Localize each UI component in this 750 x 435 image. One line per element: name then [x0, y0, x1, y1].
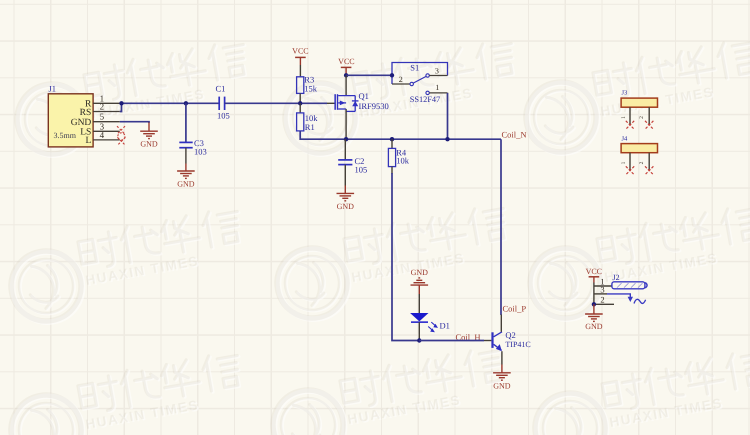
svg-text:GND: GND: [585, 322, 603, 331]
svg-text:RS: RS: [80, 108, 92, 118]
node R4 junction dot: [390, 137, 394, 141]
svg-text:2: 2: [100, 102, 105, 112]
J1 pin 1 (R): [93, 93, 120, 103]
J2 pin 3 sleeve contact: [594, 285, 633, 302]
capacitor C2: [338, 156, 367, 174]
no-ERC marker on J4 pin 1: [626, 166, 634, 174]
capacitor C1: [216, 83, 230, 120]
svg-text:105: 105: [217, 111, 230, 121]
svg-text:5: 5: [100, 112, 105, 122]
svg-text:S1: S1: [410, 62, 419, 72]
power VCC (Q1): [338, 57, 354, 75]
wire R4 bottom to Coil_H corner: [391, 167, 393, 174]
J1 pin 3 (LS): [93, 121, 120, 131]
wire C3 to ground: [185, 148, 187, 164]
svg-text:GND: GND: [177, 179, 195, 188]
svg-text:Coil_P: Coil_P: [503, 303, 527, 313]
svg-text:10k: 10k: [396, 155, 410, 165]
node S1 left junction dot: [390, 73, 394, 77]
J1 pin 5 (GND): [93, 112, 120, 122]
svg-text:3: 3: [600, 285, 604, 295]
connector J1: [48, 84, 93, 147]
S1 lever: [413, 76, 426, 83]
wire node B to R1: [299, 103, 301, 113]
svg-text:103: 103: [194, 147, 207, 157]
resistor R1: [297, 113, 319, 132]
wire C2 top pin: [344, 139, 346, 160]
svg-text:J2: J2: [613, 273, 620, 282]
svg-text:J4: J4: [622, 135, 629, 142]
no-ERC marker on J1 pin 4: [117, 137, 125, 145]
wire J1.2 RS riser to node A: [120, 103, 122, 111]
wire VCC node to S1: [346, 74, 392, 76]
wire Q2 collector pin: [500, 315, 502, 332]
J2 pin 1: [594, 276, 612, 304]
svg-text:J3: J3: [622, 90, 628, 97]
ground GND (C3): [177, 164, 195, 189]
J1 pin 2 (RS): [93, 102, 120, 112]
LED D1: [410, 313, 450, 332]
wire top bus: C1 to gate node: [225, 102, 327, 104]
no-ERC marker on J4 pin 2: [645, 166, 653, 174]
node C3 junction dot: [184, 101, 188, 105]
no-ERC dashed circle: [118, 133, 125, 140]
node B junction dot: [298, 101, 302, 105]
J4 pin 2: [639, 153, 649, 170]
wire R1 to mid bus: [300, 131, 345, 139]
wire J1 GND net to ground: [120, 122, 149, 123]
transistor Q1 IRF9530: [334, 91, 388, 111]
svg-text:GND: GND: [71, 118, 92, 128]
svg-text:105: 105: [355, 164, 368, 174]
svg-text:2: 2: [639, 116, 645, 119]
svg-text:TIP41C: TIP41C: [505, 340, 530, 349]
svg-text:GND: GND: [140, 140, 158, 149]
switch S1 box: [392, 62, 448, 104]
J2 plug barrel: [612, 282, 647, 289]
node Q1 drain / C2 junction dot: [344, 137, 348, 141]
capacitor C3: [179, 138, 206, 157]
power VCC (J2): [586, 267, 602, 282]
wire D1 cathode to Coil_H: [418, 322, 420, 340]
svg-text:Q1: Q1: [359, 91, 369, 101]
S1 pin 1: [426, 83, 448, 95]
svg-text:VCC: VCC: [338, 57, 354, 66]
svg-text:3: 3: [435, 67, 439, 76]
svg-text:1: 1: [621, 161, 627, 164]
node S1 pin1 junction dot: [445, 137, 449, 141]
svg-text:15k: 15k: [304, 83, 318, 93]
S1 pin 2: [392, 75, 413, 86]
wire C3 branch: [185, 103, 187, 142]
svg-text:GND: GND: [337, 202, 355, 211]
wire R4 top pin: [391, 139, 393, 148]
J3 pin 2: [639, 107, 649, 124]
power VCC (R3): [292, 47, 308, 66]
J2 spring contact: [634, 299, 646, 303]
ground GND (Q2): [493, 365, 511, 391]
svg-text:1: 1: [621, 116, 627, 119]
svg-text:4: 4: [100, 130, 105, 140]
svg-text:2: 2: [600, 295, 604, 305]
svg-text:R1: R1: [305, 122, 315, 132]
resistor R3: [297, 74, 318, 93]
ground GND inverted (above D1): [411, 268, 429, 294]
svg-text:2: 2: [639, 161, 645, 164]
J1 pin 4 (L): [93, 130, 120, 140]
ground GND (J1): [140, 123, 158, 149]
node J2 ground junction dot: [592, 302, 596, 306]
svg-text:Coil_N: Coil_N: [502, 129, 527, 139]
wire S1 pin1 down to mid bus: [447, 93, 449, 139]
J4 pin 1: [621, 153, 630, 170]
svg-text:D1: D1: [440, 320, 450, 330]
svg-text:GND: GND: [411, 268, 429, 277]
svg-text:SS12F47: SS12F47: [410, 95, 440, 104]
wire mid bus: [345, 138, 501, 140]
transistor Q2 TIP41C: [491, 330, 530, 351]
no-ERC marker on J3 pin 2: [645, 121, 653, 129]
svg-text:L: L: [85, 136, 91, 146]
S1 pin 3: [426, 67, 448, 78]
ground GND (C2): [337, 186, 355, 211]
no-ERC marker on J1 pin 3: [117, 126, 125, 134]
wire Coil_N vertical: [500, 139, 502, 315]
wire top bus: node A to C1 left plate: [120, 102, 219, 104]
svg-text:2: 2: [399, 75, 403, 84]
svg-text:VCC: VCC: [292, 47, 308, 56]
node VCC/S1 junction dot: [344, 73, 348, 77]
wire VCC to R3: [299, 65, 301, 77]
svg-text:C1: C1: [216, 83, 226, 93]
svg-text:VCC: VCC: [586, 267, 602, 276]
no-ERC marker on J3 pin 1: [626, 121, 634, 129]
wire Coil_H to Q2 base: [419, 340, 484, 342]
wire Q2 emitter to ground: [501, 351, 503, 364]
J3 pin 1: [621, 107, 630, 124]
node D1 junction dot: [417, 338, 421, 342]
connector J3: [621, 90, 657, 108]
wire GND to D1 anode: [418, 294, 420, 313]
wire Q1 drain pin: [345, 109, 347, 139]
wire Q2 base pin: [484, 340, 491, 342]
svg-text:3.5mm: 3.5mm: [54, 131, 77, 140]
node A junction dot: [119, 101, 123, 105]
resistor R4: [388, 147, 409, 166]
wire R3 to node B: [299, 93, 301, 103]
wire C2 to ground: [344, 165, 346, 186]
svg-text:GND: GND: [493, 382, 511, 391]
ground GND (J2): [585, 304, 603, 331]
svg-text:IRF9530: IRF9530: [359, 101, 389, 111]
svg-text:1: 1: [435, 83, 439, 92]
connector J4: [621, 135, 657, 152]
J2 pin 2: [594, 295, 614, 305]
wire gate pin of Q1: [327, 102, 335, 104]
svg-text:J1: J1: [49, 84, 57, 94]
svg-text:Q2: Q2: [505, 330, 515, 340]
wire Q1 source pin: [345, 75, 347, 95]
